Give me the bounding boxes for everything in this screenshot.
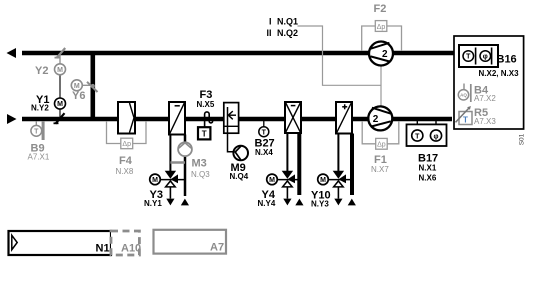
- label N.X6: [419, 174, 437, 183]
- svg-text:φ: φ: [483, 54, 488, 61]
- label M3: [192, 158, 207, 170]
- label N.X5: [197, 100, 215, 109]
- actuator M Y2: [55, 64, 66, 75]
- damper Y2: [55, 48, 66, 58]
- label N.Y1: [144, 199, 162, 208]
- svg-text:T: T: [202, 129, 207, 138]
- svg-text:A7: A7: [210, 242, 224, 254]
- module A7 box: [154, 230, 227, 254]
- node Y4 supply arrow: [283, 199, 291, 206]
- wire fan control line: [298, 26, 382, 107]
- pump M9: [233, 146, 248, 161]
- label N.Y3: [311, 200, 329, 209]
- sensor B4 icon: [458, 84, 471, 103]
- svg-text:M: M: [320, 177, 326, 184]
- svg-text:2: 2: [373, 114, 379, 125]
- wire heating coil left pipe: [337, 134, 339, 199]
- node extract air flow arrow: [7, 48, 17, 58]
- wire extract-air duct (top pipe): [22, 51, 454, 56]
- svg-text:A7.X3: A7.X3: [474, 117, 496, 126]
- damper Y1: [54, 113, 65, 124]
- svg-text:I: I: [269, 17, 272, 27]
- svg-text:Δp: Δp: [377, 24, 386, 31]
- wire supply-air duct (bottom pipe): [22, 117, 452, 122]
- actuator M Y3: [150, 174, 161, 185]
- svg-text:Y6: Y6: [72, 90, 85, 102]
- label A7.X3: [474, 117, 496, 126]
- label M9: [231, 162, 246, 174]
- wire humidifier drain: [228, 133, 234, 152]
- label B9: [31, 143, 45, 155]
- label A7.X1: [28, 153, 50, 162]
- svg-text:N.Q3: N.Q3: [191, 170, 210, 179]
- svg-text:T: T: [415, 133, 420, 140]
- damper Y6: [87, 82, 98, 92]
- label A7.X2: [474, 94, 496, 103]
- valve Y4: [277, 171, 299, 187]
- label Y1: [36, 94, 49, 106]
- node Y10 supply arrow: [334, 199, 342, 206]
- svg-text:Δp: Δp: [377, 142, 386, 149]
- svg-text:N.X1: N.X1: [419, 164, 437, 173]
- svg-text:Δp: Δp: [122, 141, 131, 148]
- label Y3: [150, 189, 163, 201]
- node Y3 return arrow: [181, 199, 189, 206]
- svg-text:N.Q4: N.Q4: [230, 172, 249, 181]
- label N.X4: [255, 148, 273, 157]
- svg-text:T: T: [262, 129, 267, 136]
- svg-text:F4: F4: [119, 155, 133, 167]
- label F4: [119, 155, 133, 167]
- svg-text:N.X8: N.X8: [116, 167, 134, 176]
- sensor unit B16: [459, 45, 498, 67]
- valve Y10: [328, 171, 352, 187]
- label N.Q3: [191, 170, 210, 179]
- node supply air flow arrow: [7, 114, 17, 124]
- svg-text:N.Y3: N.Y3: [311, 200, 329, 209]
- label II N.Q2: [267, 28, 299, 38]
- label F3: [200, 89, 213, 101]
- humidifier: [224, 103, 239, 134]
- svg-text:φ: φ: [433, 133, 438, 140]
- label R5: [474, 107, 488, 119]
- svg-text:A10: A10: [121, 243, 141, 255]
- label N.X2, N.X3: [479, 69, 520, 78]
- fan F1: [368, 106, 392, 130]
- svg-text:M3: M3: [192, 158, 207, 170]
- thermostat F3: [198, 112, 213, 139]
- module A10 box: [111, 231, 141, 255]
- svg-text:N.Q1: N.Q1: [277, 17, 298, 27]
- actuator M Y1: [55, 98, 66, 109]
- label I N.Q1: [269, 17, 298, 27]
- room box B16: [454, 36, 524, 129]
- node Y4 return arrow: [295, 199, 303, 206]
- svg-text:N.X7: N.X7: [371, 165, 389, 174]
- svg-text:T: T: [34, 129, 39, 136]
- label Y6: [72, 90, 85, 102]
- node Y10 return arrow: [348, 199, 356, 206]
- wire actuator stem Y2/Y1: [59, 55, 61, 118]
- svg-text:AQ: AQ: [460, 93, 467, 98]
- svg-text:M: M: [57, 67, 63, 74]
- filter F4: [118, 102, 135, 134]
- svg-text:A7.X1: A7.X1: [28, 153, 50, 162]
- svg-text:A7.X2: A7.X2: [474, 94, 496, 103]
- sensor dp F1 bracket: [362, 121, 399, 149]
- label B27: [255, 138, 275, 150]
- label Y4: [262, 189, 276, 201]
- svg-text:F2: F2: [374, 3, 387, 15]
- label Y10: [311, 190, 331, 202]
- label N.X1: [419, 164, 437, 173]
- sensor B27: [259, 121, 269, 137]
- label N.X7: [371, 165, 389, 174]
- wire cooling coil right pipe: [297, 133, 301, 195]
- wire cooling coil left pipe: [286, 133, 288, 199]
- svg-text:N.Y2: N.Y2: [31, 104, 49, 113]
- setpoint adjuster R5 icon: [456, 106, 473, 125]
- svg-text:N.X6: N.X6: [419, 174, 437, 183]
- label B4: [474, 85, 489, 97]
- valve Y3: [160, 171, 185, 187]
- svg-text:N.Y1: N.Y1: [144, 199, 162, 208]
- svg-text:T: T: [463, 115, 468, 124]
- label N.Y4: [258, 199, 276, 208]
- label S01 vertical: [518, 133, 525, 145]
- label F1: [374, 154, 387, 166]
- svg-text:M: M: [57, 101, 63, 108]
- actuator M Y4: [267, 174, 278, 185]
- svg-text:N1: N1: [96, 243, 110, 255]
- label F2: [374, 3, 387, 15]
- svg-text:N.X5: N.X5: [197, 100, 215, 109]
- svg-text:B16: B16: [497, 54, 517, 66]
- controller N1 box: [9, 231, 112, 255]
- wire Y6 link: [82, 84, 91, 86]
- svg-text:T: T: [466, 54, 471, 61]
- label Y2: [35, 65, 48, 77]
- svg-text:M: M: [74, 83, 80, 90]
- sensor B9: [31, 121, 45, 140]
- label N.X8: [116, 167, 134, 176]
- label N.Q4: [230, 172, 249, 181]
- pump M3: [178, 142, 192, 156]
- svg-text:N.Q2: N.Q2: [277, 28, 298, 38]
- svg-text:2: 2: [382, 49, 388, 60]
- sensor B17: [407, 121, 447, 146]
- wire recirculation duct (vertical): [91, 51, 96, 121]
- label B16: [497, 54, 517, 66]
- sensor dp F4 bracket: [107, 121, 147, 149]
- actuator M Y10: [318, 174, 329, 185]
- node Y3 supply arrow: [166, 199, 174, 206]
- wire exchanger left pipe: [169, 135, 171, 199]
- svg-text:S01: S01: [518, 133, 525, 145]
- label N.Y2: [31, 104, 49, 113]
- svg-text:Y2: Y2: [35, 65, 48, 77]
- sensor dp F2 bracket: [362, 21, 402, 51]
- actuator M Y6: [71, 80, 82, 91]
- svg-text:M: M: [152, 177, 158, 184]
- heat-recovery exchanger: [169, 102, 185, 135]
- wire heating coil right pipe: [350, 134, 354, 196]
- heating coil: [336, 102, 352, 134]
- svg-text:N.X2, N.X3: N.X2, N.X3: [479, 69, 520, 78]
- wire bypass grey: [170, 161, 185, 164]
- svg-text:N.Y4: N.Y4: [258, 199, 276, 208]
- svg-text:N.X4: N.X4: [255, 148, 273, 157]
- fan F2: [369, 42, 393, 66]
- svg-text:II: II: [267, 28, 272, 38]
- cooling coil: [285, 102, 301, 133]
- wire exchanger right pipe: [184, 135, 187, 197]
- label B17: [418, 153, 438, 165]
- svg-text:M: M: [269, 177, 275, 184]
